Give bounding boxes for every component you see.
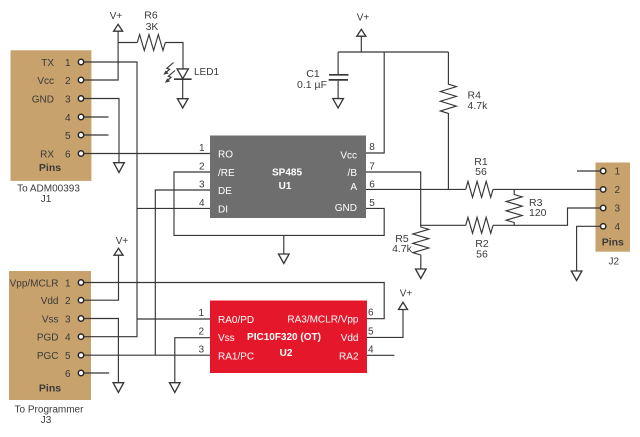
svg-text:/RE: /RE [218,168,235,179]
svg-text:V+: V+ [357,13,370,24]
svg-text:4: 4 [65,333,71,344]
svg-text:4: 4 [65,113,71,124]
svg-text:To Programmer: To Programmer [15,405,85,416]
svg-text:Vdd: Vdd [41,296,59,307]
svg-text:PIC10F320 (OT): PIC10F320 (OT) [247,332,321,343]
svg-text:SP485: SP485 [272,168,302,179]
svg-text:3K: 3K [146,21,159,33]
svg-text:RA2: RA2 [339,352,359,363]
svg-text:Vss: Vss [218,333,235,344]
svg-text:RO: RO [218,150,233,161]
svg-text:GND: GND [32,95,54,106]
svg-text:V+: V+ [400,289,413,300]
svg-text:2: 2 [198,327,204,338]
svg-text:PGD: PGD [37,333,59,344]
svg-text:56: 56 [476,249,488,261]
svg-text:RA0/PD: RA0/PD [218,315,254,326]
svg-text:1: 1 [198,308,204,319]
svg-text:5: 5 [369,198,375,209]
svg-text:4.7k: 4.7k [468,100,489,112]
svg-text:/B: /B [348,168,358,179]
svg-text:DI: DI [218,204,228,215]
svg-text:1: 1 [65,279,71,290]
svg-text:5: 5 [65,351,71,362]
svg-text:R6: R6 [144,10,158,22]
svg-text:6: 6 [65,150,71,161]
svg-text:Pins: Pins [602,237,624,249]
svg-text:1: 1 [65,58,71,69]
svg-text:4: 4 [615,222,621,233]
svg-text:U1: U1 [279,181,292,192]
svg-text:Vpp/MCLR: Vpp/MCLR [10,279,59,290]
svg-text:6: 6 [368,308,374,319]
svg-text:TX: TX [41,58,54,69]
svg-text:4: 4 [368,345,374,356]
svg-text:3: 3 [199,180,205,191]
svg-text:2: 2 [65,296,71,307]
svg-text:5: 5 [65,131,71,142]
svg-text:PGC: PGC [37,351,59,362]
svg-text:Vss: Vss [42,315,59,326]
svg-text:A: A [350,182,357,193]
svg-text:Vcc: Vcc [340,150,357,161]
svg-text:Vcc: Vcc [37,76,54,87]
svg-text:2: 2 [65,76,71,87]
svg-text:5: 5 [368,327,374,338]
svg-text:120: 120 [529,207,547,219]
svg-text:0.1 µF: 0.1 µF [297,79,327,91]
svg-text:3: 3 [615,204,621,215]
svg-text:3: 3 [65,95,71,106]
svg-text:Pins: Pins [39,162,61,174]
svg-text:J2: J2 [609,257,620,268]
svg-text:7: 7 [369,162,375,173]
svg-text:2: 2 [615,185,621,196]
svg-text:RX: RX [40,150,54,161]
svg-text:56: 56 [475,166,487,178]
svg-text:To ADM00393: To ADM00393 [17,184,80,195]
svg-text:J1: J1 [41,194,52,205]
svg-text:U2: U2 [280,348,293,359]
svg-text:J3: J3 [41,415,52,426]
svg-text:Vdd: Vdd [341,333,359,344]
svg-text:4.7k: 4.7k [392,243,413,255]
svg-text:LED1: LED1 [194,67,219,78]
svg-text:8: 8 [369,142,375,153]
svg-text:RA3/MCLR/Vpp: RA3/MCLR/Vpp [287,315,359,326]
svg-text:3: 3 [198,345,204,356]
svg-text:1: 1 [199,143,205,154]
svg-text:6: 6 [65,369,71,380]
svg-text:RA1/PC: RA1/PC [218,352,254,363]
svg-text:V+: V+ [116,236,129,247]
svg-text:Pins: Pins [39,383,61,395]
svg-text:6: 6 [369,180,375,191]
svg-text:GND: GND [335,203,357,214]
svg-text:4: 4 [199,198,205,209]
svg-text:V+: V+ [110,11,123,22]
svg-text:1: 1 [615,167,621,178]
svg-text:3: 3 [65,315,71,326]
svg-text:DE: DE [218,186,232,197]
svg-text:2: 2 [199,162,205,173]
